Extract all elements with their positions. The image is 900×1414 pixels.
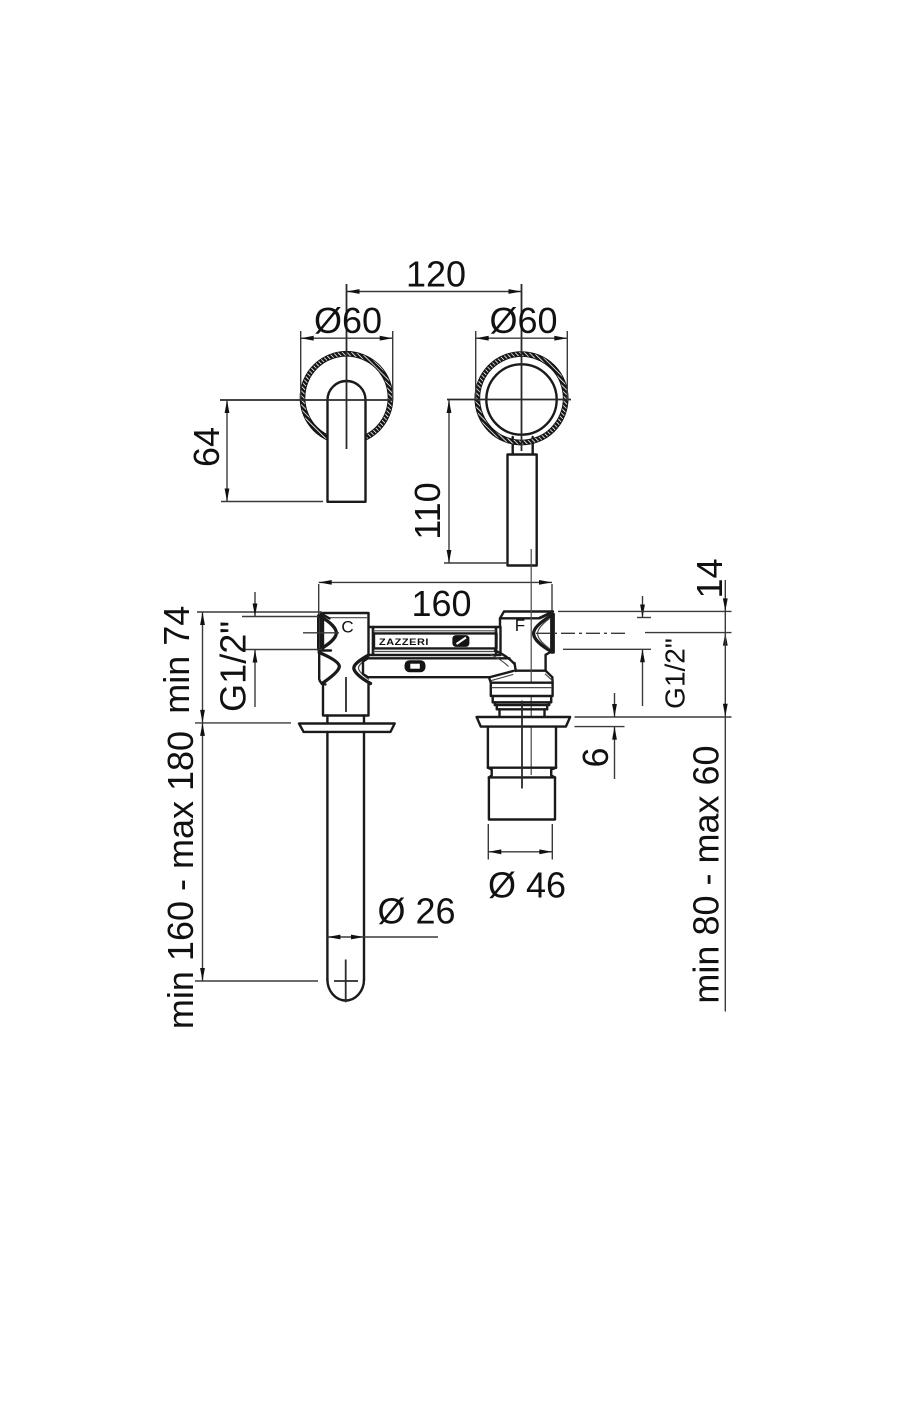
dimension 6 bottom extension — [575, 726, 625, 728]
valve body F port end face — [551, 614, 553, 653]
dimension min80 top extension — [575, 716, 732, 718]
svg-text:min 160 - max 180: min 160 - max 180 — [160, 731, 201, 1029]
right trim inner circle — [486, 364, 556, 434]
svg-text:min 80 - max 60: min 80 - max 60 — [686, 745, 727, 1003]
manifold label plate — [374, 633, 497, 648]
valve body C top-left chamfer — [321, 614, 330, 619]
dimension D60 right line — [476, 337, 568, 339]
svg-text:G1/2": G1/2" — [213, 621, 254, 712]
outlet bottom cylinder (D46) — [489, 777, 555, 819]
valve body F bottom edge — [516, 670, 546, 672]
dimension G12 right extensions — [637, 617, 651, 619]
left trim handle lever — [328, 381, 366, 502]
right trim vertical centerline — [521, 284, 523, 451]
valve body C port centerline — [303, 632, 339, 634]
manifold-to-outlet fillet band — [495, 651, 515, 665]
valve body F left lower edge — [515, 663, 516, 671]
dimension min160 line — [202, 723, 204, 981]
valve body C tube stub through flange — [326, 716, 328, 724]
dimension min74 line — [202, 612, 204, 723]
valve body F port centerline (dash-dot) — [536, 632, 628, 634]
valve body F port cone inner arc — [538, 619, 550, 649]
dimension min80 line — [724, 633, 726, 1012]
outlet ring B — [493, 696, 552, 702]
valve body C port end face — [318, 616, 321, 650]
valve body C right-side cone (bar junction) — [354, 654, 371, 684]
dimension G12 right line+arrows — [642, 596, 644, 618]
dimension 110 line — [448, 400, 450, 563]
valve body F top right chamfer — [540, 613, 552, 618]
svg-text:C: C — [341, 618, 353, 637]
valve body F lower right edge — [546, 652, 552, 671]
valve body F port cone — [534, 616, 552, 652]
right trim escutcheon ring (hatched) — [475, 352, 568, 445]
dimension 110 bottom extension — [444, 562, 508, 564]
manifold lower bar slot — [405, 660, 426, 672]
outlet upper cylinder — [488, 727, 556, 768]
svg-text:160: 160 — [411, 583, 471, 624]
right trim spout barrel — [508, 455, 537, 566]
dimension 64 bottom extension — [221, 501, 323, 503]
dimension D26 leader — [327, 936, 438, 938]
outlet step band — [488, 767, 556, 769]
right wall flange — [477, 717, 570, 727]
dimension min160 bottom extension — [195, 980, 318, 982]
dimension G12 left line+arrows — [254, 592, 256, 617]
right trim horizontal centerline — [447, 399, 571, 401]
manifold lower bar — [363, 658, 510, 677]
outlet shoulder diagonals — [489, 671, 514, 678]
right trim spout neck — [513, 437, 533, 455]
dimension 14 extensions — [558, 610, 732, 612]
svg-text:Ø 26: Ø 26 — [377, 891, 455, 932]
left outlet tube (D26) — [327, 732, 364, 980]
dimension 6 line+arrows — [614, 693, 616, 717]
outlet ring A — [491, 683, 553, 696]
manifold bar left end face — [369, 627, 374, 655]
svg-text:G1/2": G1/2" — [660, 638, 691, 709]
dimension 160 extension lines — [318, 584, 320, 646]
ZAZZERI logo mark — [452, 635, 469, 647]
svg-text:Ø60: Ø60 — [314, 300, 382, 341]
dimension 120 line — [347, 291, 522, 293]
svg-text:min 74: min 74 — [156, 606, 197, 714]
manifold bar right end face — [496, 627, 501, 655]
left trim escutcheon ring (hatched) — [300, 351, 393, 444]
dimension 64 line — [226, 400, 228, 502]
dimension min74 top extension — [197, 611, 322, 613]
left tube centerline — [345, 960, 347, 1003]
valve body C outline — [323, 613, 369, 716]
dimension D60 left line — [301, 337, 393, 339]
svg-text:64: 64 — [186, 427, 227, 467]
dimension D60 right extension lines — [475, 331, 477, 400]
svg-text:Ø60: Ø60 — [489, 300, 557, 341]
dimension 14 line+arrows — [724, 580, 726, 611]
left trim vertical centerline — [346, 284, 348, 449]
outlet centerline — [521, 701, 523, 789]
valve body C port step — [319, 649, 332, 651]
dimension G12 left extensions — [242, 616, 319, 618]
svg-text:14: 14 — [689, 558, 730, 598]
svg-text:Ø 46: Ø 46 — [488, 865, 566, 906]
valve body F left edge — [499, 618, 501, 627]
svg-text:120: 120 — [406, 254, 466, 295]
valve body C top face line — [330, 617, 369, 619]
valve body C lower port cone — [319, 653, 325, 685]
dimension D60 left extension lines — [300, 331, 302, 400]
left trim horizontal centerline / 64 top extension — [220, 399, 393, 401]
valve body C centerline — [345, 677, 347, 712]
svg-text:ZAZZERI: ZAZZERI — [379, 637, 429, 648]
dimension D46 extensions — [487, 824, 489, 860]
dimension D46 line — [488, 851, 552, 853]
left tube rounded cap — [327, 980, 364, 1001]
svg-text:6: 6 — [575, 747, 616, 767]
left wall flange — [299, 724, 395, 732]
manifold bar top band — [373, 627, 496, 655]
svg-text:110: 110 — [407, 482, 448, 539]
outlet neck to flange — [500, 709, 545, 717]
dimension min160 mid extension — [195, 722, 291, 724]
valve body F top face — [500, 612, 553, 619]
valve body C upper port cone — [321, 617, 337, 650]
dimension 160 line — [319, 581, 552, 583]
thin axis line right column — [530, 549, 532, 775]
outlet ring C — [495, 702, 549, 705]
svg-text:F: F — [515, 616, 525, 635]
